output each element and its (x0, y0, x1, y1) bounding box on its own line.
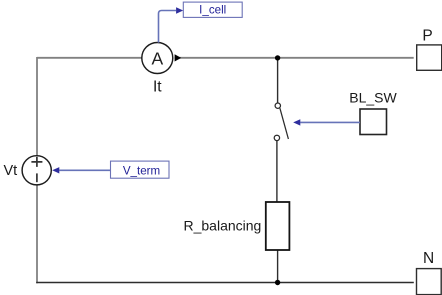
ammeter It circle (142, 43, 173, 74)
I_cell tag box (183, 2, 242, 17)
wire blue from V_term tag (59, 169, 110, 171)
switch blade (280, 108, 289, 139)
arrowhead into I_cell (176, 7, 183, 13)
wire top: ammeter left to left corner (37, 57, 142, 59)
node junction bottom (275, 280, 280, 285)
switch bottom contact (274, 135, 279, 140)
wire left vertical upper (36, 57, 38, 156)
svg-text:N: N (423, 250, 434, 267)
signal arrowhead after ammeter (175, 54, 182, 61)
switch top contact (275, 103, 280, 108)
svg-text:Vt: Vt (4, 163, 18, 179)
port P box (417, 45, 442, 70)
wire blue from BL_SW box (300, 121, 360, 123)
voltage source minus bar (36, 173, 38, 182)
svg-text:It: It (153, 79, 162, 96)
arrowhead toward switch (293, 119, 300, 125)
svg-text:BL_SW: BL_SW (349, 90, 397, 106)
wire left vertical lower (36, 185, 38, 284)
V_term tag box (111, 161, 170, 178)
svg-text:R_balancing: R_balancing (184, 217, 262, 233)
voltage source Vt circle (22, 156, 51, 185)
svg-text:P: P (422, 28, 432, 45)
svg-text:V_term: V_term (123, 165, 160, 178)
wire resistor bottom stub (277, 250, 279, 283)
wire switch branch lower (276, 141, 278, 202)
wire blue to I_cell tag (159, 11, 177, 43)
resistor R_balancing (266, 202, 290, 250)
wire top: ammeter right to P port (175, 57, 414, 59)
port N box (417, 269, 442, 295)
BL_SW box (360, 109, 387, 135)
wire bottom (36, 282, 414, 284)
svg-text:I_cell: I_cell (199, 4, 226, 17)
node junction top (275, 55, 280, 60)
arrowhead into Vt source (52, 167, 59, 173)
wire switch branch upper (277, 58, 279, 103)
svg-text:A: A (151, 48, 163, 68)
voltage source plus sign (31, 157, 42, 167)
